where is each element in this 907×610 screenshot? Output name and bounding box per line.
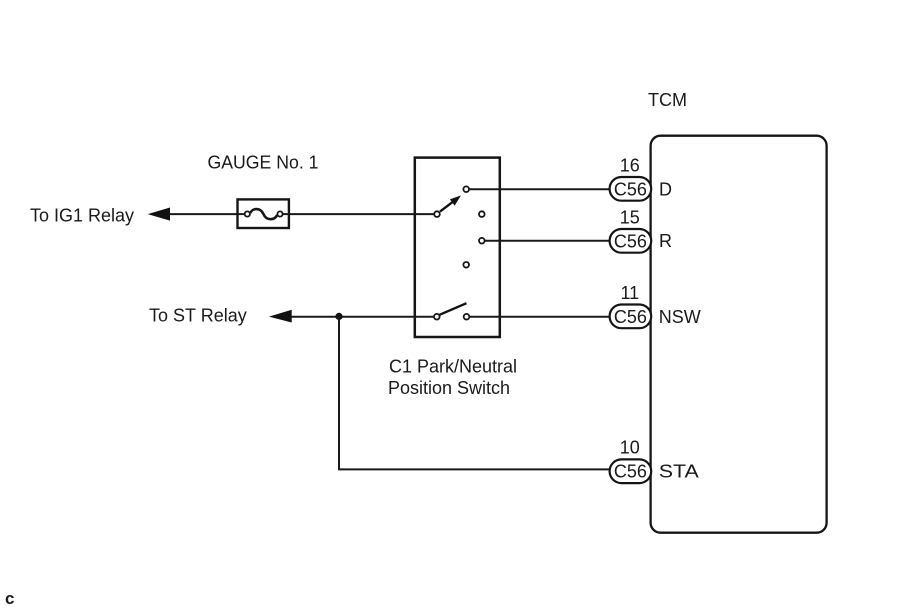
contact: D position <box>463 186 469 192</box>
connector C56 pin 16 <box>610 155 652 200</box>
TCM box <box>651 136 827 533</box>
wire junction down and right to C56 pin 10 <box>339 317 611 470</box>
svg-text:C56: C56 <box>614 179 647 199</box>
contact: bottom switch right <box>464 314 470 320</box>
svg-text:To IG1 Relay: To IG1 Relay <box>30 205 134 225</box>
wire R contact to C56 pin 15 <box>485 240 610 242</box>
svg-text:15: 15 <box>620 207 640 227</box>
svg-text:NSW: NSW <box>659 307 701 327</box>
svg-text:C1 Park/Neutral: C1 Park/Neutral <box>389 357 517 377</box>
contact: unused middle <box>479 211 485 217</box>
svg-text:R: R <box>659 231 672 251</box>
fuse GAUGE No. 1 <box>238 199 289 228</box>
wire bottom switch to C56 pin 11 <box>470 316 610 318</box>
wire inside box re-draw (common) <box>415 213 434 215</box>
svg-text:D: D <box>659 180 672 200</box>
svg-text:Position Switch: Position Switch <box>388 378 510 398</box>
junction node <box>335 313 342 320</box>
connector C56 pin 11 <box>610 283 652 328</box>
arrowhead to ST Relay <box>271 310 291 322</box>
svg-text:GAUGE No. 1: GAUGE No. 1 <box>208 153 319 173</box>
contact: top switch common <box>434 211 440 217</box>
connector C56 pin 15 <box>610 207 652 252</box>
contact: unused lower <box>463 262 469 268</box>
contact: bottom switch left <box>434 314 440 320</box>
svg-text:C56: C56 <box>614 462 647 482</box>
wire To ST Relay to bottom switch <box>282 316 434 318</box>
top switch arm with arrowhead <box>440 195 461 211</box>
svg-text:To ST Relay: To ST Relay <box>149 306 247 326</box>
svg-text:10: 10 <box>620 438 640 458</box>
bottom switch arm <box>440 303 467 315</box>
wire from IG1 arrow through fuse to switch common contact <box>160 213 434 215</box>
svg-text:TCM: TCM <box>648 90 687 110</box>
svg-text:C56: C56 <box>614 231 647 251</box>
svg-text:C56: C56 <box>614 307 647 327</box>
contact: R position <box>479 238 485 244</box>
switch box C1 Park/Neutral Position Switch <box>415 158 500 337</box>
svg-text:c: c <box>5 589 14 608</box>
svg-text:11: 11 <box>620 283 639 303</box>
svg-text:16: 16 <box>620 155 640 175</box>
arrowhead to IG1 Relay <box>150 208 170 220</box>
connector C56 pin 10 <box>610 438 652 483</box>
svg-text:STA: STA <box>659 462 699 482</box>
wire D contact to C56 pin 16 <box>469 188 610 190</box>
